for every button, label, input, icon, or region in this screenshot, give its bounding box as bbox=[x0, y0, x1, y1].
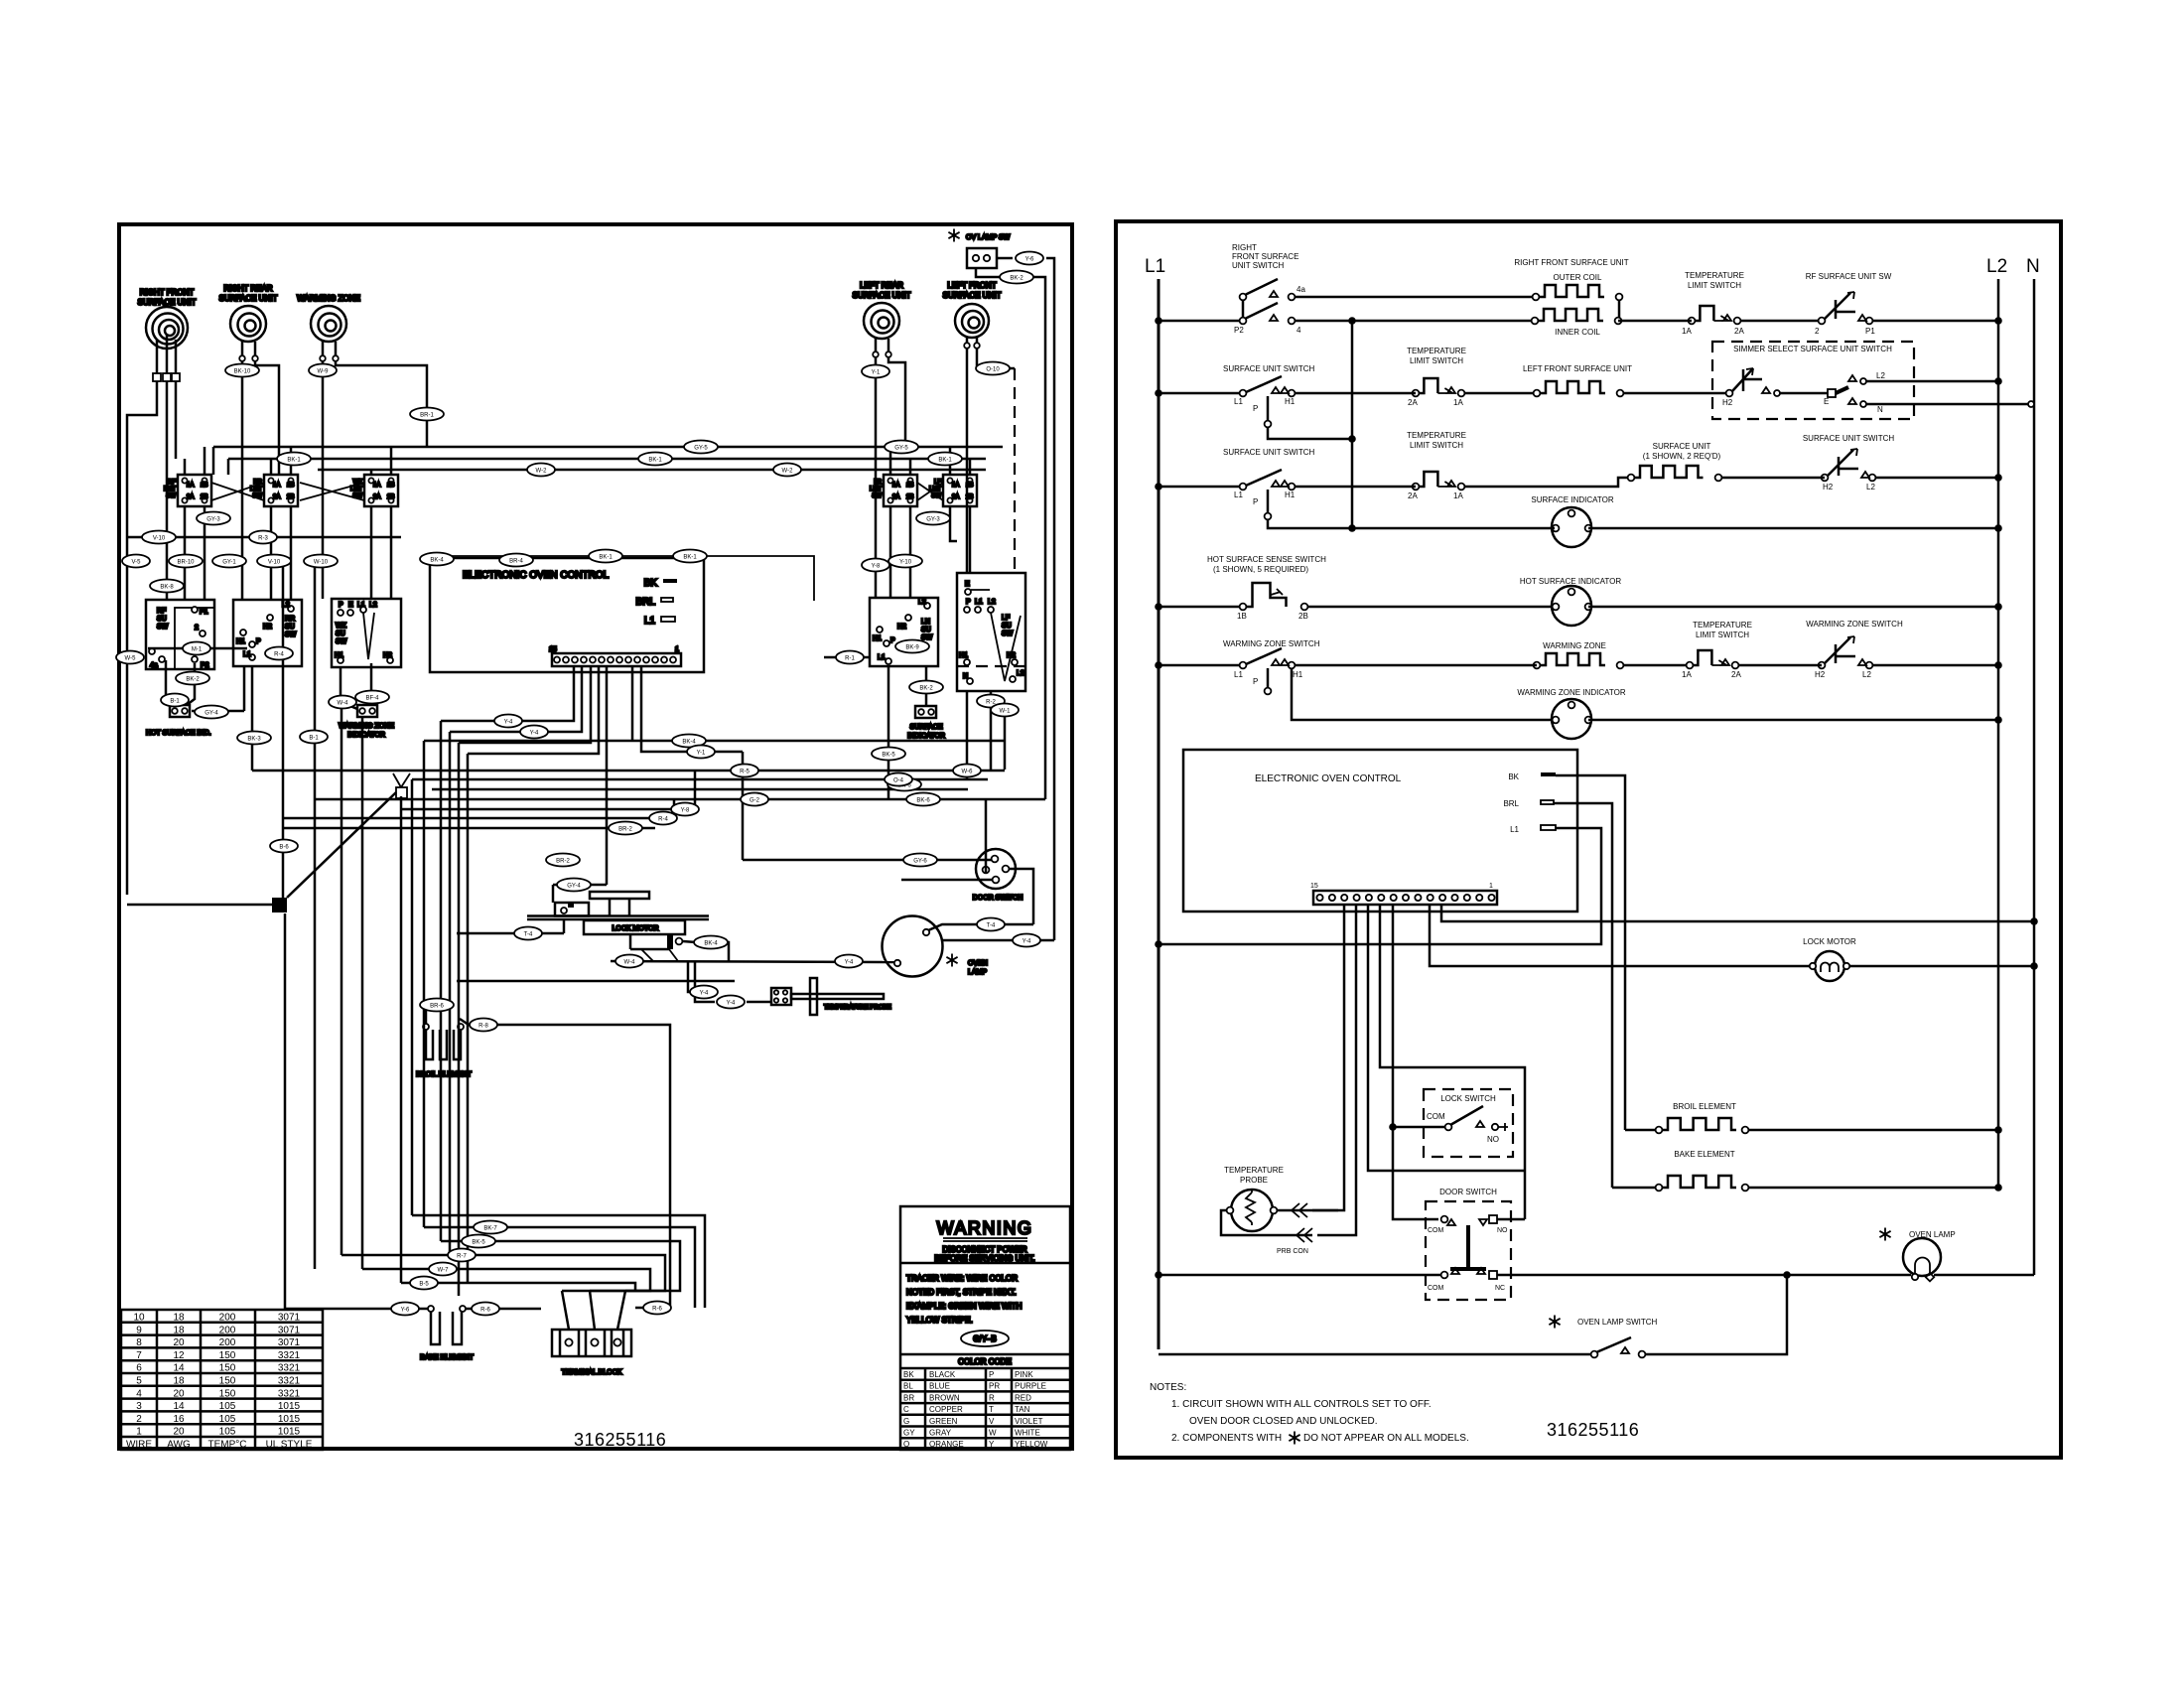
svg-text:SU: SU bbox=[921, 627, 931, 633]
svg-text:SURFACE UNIT SWITCH: SURFACE UNIT SWITCH bbox=[1223, 364, 1315, 373]
svg-text:OUTER COIL: OUTER COIL bbox=[1554, 273, 1602, 282]
wire label T-4 bbox=[514, 927, 542, 940]
wire label Y-6 bbox=[1016, 252, 1043, 265]
svg-text:L2: L2 bbox=[988, 599, 996, 606]
wire BRL lead bbox=[1554, 803, 1612, 1188]
svg-text:L2: L2 bbox=[918, 599, 926, 606]
wire lock motor to N bbox=[1849, 965, 2034, 968]
svg-text:Y-10: Y-10 bbox=[899, 560, 912, 566]
left page border frame bbox=[119, 224, 1072, 1449]
svg-text:RIGHT FRONT: RIGHT FRONT bbox=[140, 288, 195, 297]
wire label Y-4 bbox=[690, 986, 718, 999]
svg-text:2A: 2A bbox=[1408, 491, 1418, 500]
surface unit: RIGHT FRONT (spiral coil) bbox=[138, 288, 197, 349]
right page border frame bbox=[1116, 221, 2061, 1458]
wire lock bottom row bbox=[457, 980, 735, 983]
wire label GY-5 bbox=[885, 441, 918, 454]
svg-text:W: W bbox=[989, 1429, 997, 1438]
svg-text:L1: L1 bbox=[1234, 670, 1243, 679]
wire lamp feed row bbox=[611, 961, 894, 962]
svg-text:18: 18 bbox=[173, 1313, 185, 1324]
wire bus B bbox=[228, 458, 986, 461]
svg-text:SU: SU bbox=[157, 616, 167, 623]
svg-text:BF-4: BF-4 bbox=[365, 696, 379, 702]
switch RR SU SW bbox=[233, 600, 302, 666]
svg-text:SURFACE UNIT: SURFACE UNIT bbox=[943, 291, 1002, 300]
wire label V-10 bbox=[142, 531, 176, 544]
svg-text:Y-6: Y-6 bbox=[1025, 257, 1034, 263]
svg-text:Y-6: Y-6 bbox=[401, 1308, 410, 1314]
wire far left run bbox=[127, 536, 401, 539]
wire label Y-4 bbox=[494, 715, 522, 728]
svg-text:R-4: R-4 bbox=[274, 652, 284, 658]
svg-text:R: R bbox=[989, 1393, 995, 1402]
wire label V-5 bbox=[122, 555, 150, 568]
svg-text:G-2: G-2 bbox=[750, 798, 760, 804]
svg-text:BK-2: BK-2 bbox=[186, 677, 200, 683]
wire bus A bbox=[213, 446, 1003, 449]
svg-text:SIMMER SELECT SURFACE UNIT: SIMMER SELECT SURFACE UNIT SWITCH bbox=[1733, 345, 1892, 353]
svg-text:T: T bbox=[989, 1405, 994, 1414]
svg-text:W-5: W-5 bbox=[125, 656, 137, 662]
wire label GY-3 bbox=[197, 512, 230, 525]
lock motor assembly (left page) bbox=[527, 892, 709, 949]
svg-text:BROWN: BROWN bbox=[929, 1393, 960, 1402]
svg-text:10: 10 bbox=[133, 1313, 145, 1324]
wire label Y-8 bbox=[862, 559, 889, 572]
svg-text:NO: NO bbox=[1497, 1227, 1508, 1234]
wire label R-6 bbox=[643, 1302, 671, 1315]
svg-text:BK-1: BK-1 bbox=[599, 555, 613, 561]
wire label BK-2 bbox=[909, 681, 943, 694]
wire BK to broil bbox=[1625, 1129, 1655, 1132]
svg-text:COPPER: COPPER bbox=[929, 1405, 963, 1414]
svg-text:SW: SW bbox=[157, 624, 169, 631]
wire LR unit leads bbox=[875, 339, 878, 351]
svg-text:L2: L2 bbox=[1866, 483, 1875, 491]
svg-text:BROIL ELEMENT: BROIL ELEMENT bbox=[1673, 1102, 1736, 1111]
svg-text:GY-6: GY-6 bbox=[913, 859, 927, 865]
svg-text:BR-4: BR-4 bbox=[509, 559, 523, 565]
wire lamp row 947 bbox=[942, 939, 1054, 942]
svg-text:SURFACE INDICATOR: SURFACE INDICATOR bbox=[1531, 495, 1613, 504]
wire label W-6 bbox=[953, 765, 981, 777]
limit switch RR LMT SW bbox=[250, 475, 298, 506]
svg-text:NC: NC bbox=[1495, 1285, 1505, 1292]
svg-text:WARMING ZONE: WARMING ZONE bbox=[339, 723, 394, 730]
wire rung1 to RF sw bbox=[1618, 320, 1692, 323]
svg-text:200: 200 bbox=[219, 1313, 236, 1324]
svg-text:O: O bbox=[903, 1440, 909, 1449]
wire label BK-6 bbox=[906, 793, 940, 806]
svg-text:316255116: 316255116 bbox=[574, 1430, 666, 1450]
svg-text:L2: L2 bbox=[369, 602, 377, 609]
svg-text:2B: 2B bbox=[387, 494, 394, 500]
svg-text:LAMP: LAMP bbox=[968, 969, 987, 976]
wire rung3 segs bbox=[1296, 486, 1416, 489]
svg-text:P: P bbox=[890, 637, 895, 644]
svg-text:20: 20 bbox=[173, 1427, 185, 1438]
svg-text:EXAMPLE: GREEN WIRE WITH: EXAMPLE: GREEN WIRE WITH bbox=[906, 1302, 1023, 1311]
svg-text:3071: 3071 bbox=[278, 1337, 301, 1348]
svg-text:TRACER WIRE: WIRE COLOR: TRACER WIRE: WIRE COLOR bbox=[906, 1274, 1018, 1283]
wire rung6 to L2 bbox=[1588, 719, 1998, 722]
svg-text:ELECTRONIC OVEN CONTROL: ELECTRONIC OVEN CONTROL bbox=[463, 570, 610, 581]
svg-text:N: N bbox=[963, 673, 968, 680]
svg-text:SW: SW bbox=[921, 634, 933, 641]
svg-text:SURFACE UNIT: SURFACE UNIT bbox=[1653, 442, 1711, 451]
svg-text:Y: Y bbox=[989, 1440, 995, 1449]
svg-text:16: 16 bbox=[173, 1414, 185, 1425]
svg-text:FRONT SURFACE: FRONT SURFACE bbox=[1232, 252, 1298, 261]
svg-text:P2: P2 bbox=[201, 662, 209, 669]
wire switch box drops bbox=[165, 660, 168, 705]
svg-text:TEMPERATURE: TEMPERATURE bbox=[1407, 347, 1466, 355]
svg-text:GY-3: GY-3 bbox=[206, 517, 220, 523]
svg-text:R-3: R-3 bbox=[258, 536, 268, 542]
svg-text:DO NOT APPEAR ON ALL MODE: DO NOT APPEAR ON ALL MODELS. bbox=[1303, 1433, 1469, 1444]
surface unit: WARMING ZONE bbox=[297, 294, 360, 342]
svg-text:H2: H2 bbox=[1815, 670, 1826, 679]
svg-text:PROBE: PROBE bbox=[1240, 1176, 1268, 1185]
svg-text:BK-7: BK-7 bbox=[483, 1226, 497, 1232]
wire label R-6 bbox=[472, 1303, 499, 1316]
svg-text:H2: H2 bbox=[1722, 398, 1733, 407]
wire label R-1 bbox=[836, 651, 864, 664]
wire P drop row5 bbox=[1265, 688, 1272, 695]
svg-text:1B: 1B bbox=[387, 483, 394, 489]
svg-text:LEFT FRONT SURFACE UNIT: LEFT FRONT SURFACE UNIT bbox=[1523, 364, 1632, 373]
svg-text:INDICATOR: INDICATOR bbox=[347, 732, 385, 739]
wire label R-3 bbox=[249, 531, 277, 544]
svg-text:BK-1: BK-1 bbox=[648, 458, 662, 464]
svg-text:ELECTRONIC OVEN CONTROL: ELECTRONIC OVEN CONTROL bbox=[1255, 773, 1402, 784]
svg-text:3071: 3071 bbox=[278, 1313, 301, 1324]
svg-text:PINK: PINK bbox=[1015, 1370, 1033, 1379]
svg-text:8: 8 bbox=[136, 1337, 142, 1348]
wire label BK-5 bbox=[872, 748, 905, 761]
svg-text:RF SURFACE UNIT SW: RF SURFACE UNIT SW bbox=[1806, 272, 1892, 281]
svg-text:BR-6: BR-6 bbox=[430, 1004, 444, 1010]
bake element (left page) bbox=[420, 1306, 474, 1361]
switch DOOR SWITCH bbox=[1426, 1201, 1511, 1300]
wire label W-9 bbox=[309, 364, 337, 377]
svg-text:2A: 2A bbox=[1734, 327, 1744, 336]
svg-text:H1: H1 bbox=[1293, 670, 1303, 679]
svg-text:GREEN: GREEN bbox=[929, 1417, 958, 1426]
wire WZ unit leads bbox=[322, 342, 325, 355]
svg-text:1A: 1A bbox=[187, 483, 194, 489]
wire label BR-6 bbox=[420, 999, 454, 1012]
svg-text:TAN: TAN bbox=[1015, 1405, 1030, 1414]
svg-text:2: 2 bbox=[195, 625, 199, 631]
wire label T-4 bbox=[977, 918, 1005, 931]
wire rung4 bbox=[1307, 606, 1555, 609]
switch WZ SU SW bbox=[332, 599, 401, 667]
svg-text:COM: COM bbox=[1428, 1227, 1444, 1234]
svg-text:BK-3: BK-3 bbox=[247, 737, 261, 743]
wire rung5 to L2 bbox=[1738, 664, 1822, 667]
wire pin10 to lock motor bbox=[1430, 905, 1813, 966]
svg-text:P2: P2 bbox=[1234, 326, 1244, 335]
svg-text:P: P bbox=[989, 1370, 994, 1379]
svg-text:1015: 1015 bbox=[278, 1414, 301, 1425]
svg-text:2: 2 bbox=[1815, 327, 1820, 336]
svg-text:P: P bbox=[1253, 404, 1258, 413]
wire lock motor BK branch bbox=[683, 941, 696, 942]
svg-text:2A: 2A bbox=[187, 494, 194, 500]
svg-text:2A: 2A bbox=[373, 494, 380, 500]
svg-text:W-1: W-1 bbox=[1000, 709, 1012, 715]
svg-text:SURFACE UNIT: SURFACE UNIT bbox=[219, 294, 278, 303]
svg-text:TEMP°C: TEMP°C bbox=[208, 1440, 247, 1451]
node junction rung1 bbox=[1348, 317, 1356, 325]
svg-text:1B: 1B bbox=[906, 483, 913, 489]
svg-text:14: 14 bbox=[173, 1401, 185, 1412]
svg-text:4: 4 bbox=[1297, 326, 1301, 335]
wire door to lamp riser bbox=[1009, 869, 1033, 924]
svg-text:20: 20 bbox=[173, 1337, 185, 1348]
surface unit: RIGHT REAR bbox=[219, 284, 278, 342]
surface indicator (left page) bbox=[907, 706, 945, 740]
svg-text:OVEN LAMP SWITCH: OVEN LAMP SWITCH bbox=[1577, 1318, 1658, 1327]
wire label W-1 bbox=[991, 704, 1019, 717]
svg-text:2. COMPONENTS WITH: 2. COMPONENTS WITH bbox=[1171, 1433, 1282, 1444]
svg-text:GY-4: GY-4 bbox=[567, 884, 581, 890]
svg-text:BK-4: BK-4 bbox=[430, 558, 444, 564]
svg-text:OV LAMP SW: OV LAMP SW bbox=[966, 234, 1011, 241]
wire P drop row3 bbox=[1265, 513, 1272, 520]
svg-text:WARMING ZONE SWITCH: WARMING ZONE SWITCH bbox=[1223, 639, 1320, 648]
wire bake to L2 bbox=[1749, 1187, 1998, 1190]
svg-text:V-10: V-10 bbox=[153, 536, 166, 542]
svg-text:2B: 2B bbox=[201, 494, 207, 500]
OV LAMP SW box bbox=[948, 229, 1010, 269]
svg-text:DOOR SWITCH: DOOR SWITCH bbox=[973, 895, 1024, 902]
svg-text:YELLOW STRIPE.: YELLOW STRIPE. bbox=[906, 1316, 973, 1325]
wire label BK-4 bbox=[420, 553, 454, 566]
svg-text:3321: 3321 bbox=[278, 1363, 301, 1374]
svg-text:1A: 1A bbox=[1453, 398, 1463, 407]
svg-text:9: 9 bbox=[136, 1325, 142, 1335]
svg-text:1A: 1A bbox=[373, 483, 380, 489]
svg-text:3: 3 bbox=[136, 1401, 142, 1412]
svg-text:LIMIT SWITCH: LIMIT SWITCH bbox=[1410, 441, 1463, 450]
svg-text:H1: H1 bbox=[236, 638, 245, 645]
svg-text:L2: L2 bbox=[1862, 670, 1871, 679]
svg-text:LF: LF bbox=[1002, 615, 1010, 622]
wire rung2 to simmer box bbox=[1623, 392, 1726, 395]
svg-text:1A: 1A bbox=[1453, 491, 1463, 500]
svg-text:W-4: W-4 bbox=[338, 701, 349, 707]
wire LF unit leads bbox=[966, 338, 969, 343]
svg-text:LEFT REAR: LEFT REAR bbox=[860, 281, 903, 290]
wire label BK-8 bbox=[150, 580, 184, 593]
wire label BK-1 bbox=[638, 453, 672, 466]
svg-text:E: E bbox=[965, 581, 970, 588]
svg-text:TEMPERATURE: TEMPERATURE bbox=[1224, 1166, 1284, 1175]
box ELECTRONIC OVEN CONTROL (schematic) bbox=[1183, 750, 1577, 912]
svg-text:1A: 1A bbox=[273, 483, 280, 489]
wire broil leads bbox=[426, 1001, 431, 1024]
svg-text:BRL: BRL bbox=[1503, 799, 1519, 808]
svg-text:TEMPERATURE: TEMPERATURE bbox=[1685, 271, 1744, 280]
svg-text:H2: H2 bbox=[263, 624, 272, 631]
svg-text:BK: BK bbox=[1508, 772, 1519, 781]
wire label BK-1 bbox=[673, 550, 707, 563]
svg-text:SU: SU bbox=[285, 624, 295, 631]
svg-text:1A: 1A bbox=[1682, 670, 1692, 679]
svg-text:OVEN: OVEN bbox=[968, 960, 988, 967]
wire label BR-1 bbox=[410, 408, 444, 421]
svg-text:YELLOW: YELLOW bbox=[1015, 1440, 1048, 1449]
svg-text:BR-10: BR-10 bbox=[177, 560, 195, 566]
svg-text:GY-5: GY-5 bbox=[894, 446, 908, 452]
svg-text:3321: 3321 bbox=[278, 1350, 301, 1361]
svg-text:L1: L1 bbox=[1234, 397, 1243, 406]
svg-text:H1: H1 bbox=[1285, 397, 1296, 406]
wire label W-4 bbox=[329, 696, 356, 709]
wire BRL to bake bbox=[1612, 1187, 1655, 1190]
wire label BK-1 bbox=[589, 550, 622, 563]
svg-text:COM: COM bbox=[1428, 1285, 1444, 1292]
wire bottom fan-out rows bbox=[412, 1215, 705, 1308]
wire label W-7 bbox=[429, 1263, 457, 1276]
svg-text:SURFACE UNIT SWITCH: SURFACE UNIT SWITCH bbox=[1223, 448, 1315, 457]
wire label BK-1 bbox=[277, 453, 311, 466]
svg-text:Y-4: Y-4 bbox=[1023, 939, 1031, 945]
svg-text:316255116: 316255116 bbox=[1547, 1420, 1639, 1440]
svg-text:Y-1: Y-1 bbox=[697, 751, 706, 757]
svg-text:HOT SURFACE IND.: HOT SURFACE IND. bbox=[146, 730, 211, 737]
svg-text:SURFACE UNIT: SURFACE UNIT bbox=[853, 291, 911, 300]
oven lamp (left page) bbox=[883, 916, 988, 977]
wire label BK-6 bbox=[887, 778, 921, 791]
svg-text:H1: H1 bbox=[335, 652, 343, 659]
svg-text:DOOR SWITCH: DOOR SWITCH bbox=[1439, 1188, 1497, 1196]
svg-text:W-2: W-2 bbox=[536, 469, 548, 475]
svg-text:WARMING ZONE: WARMING ZONE bbox=[1543, 641, 1606, 650]
svg-text:N: N bbox=[1877, 405, 1883, 414]
wire lock switch stub bbox=[1498, 1123, 1508, 1131]
wire P drop row2 bbox=[1265, 421, 1272, 428]
svg-text:SURFACE: SURFACE bbox=[909, 724, 942, 731]
svg-text:RF: RF bbox=[157, 608, 166, 615]
svg-text:H1: H1 bbox=[959, 652, 968, 659]
svg-text:AWG: AWG bbox=[167, 1440, 191, 1451]
svg-text:L1: L1 bbox=[1145, 256, 1165, 277]
svg-text:BL: BL bbox=[903, 1382, 913, 1391]
wire label GY-5 bbox=[684, 441, 718, 454]
svg-text:SW: SW bbox=[336, 638, 347, 645]
svg-text:L1: L1 bbox=[243, 651, 251, 658]
svg-text:1015: 1015 bbox=[278, 1427, 301, 1438]
limit switch WZ LMT SW bbox=[350, 475, 398, 506]
svg-text:WIRE: WIRE bbox=[126, 1440, 152, 1451]
svg-text:P: P bbox=[256, 638, 261, 645]
svg-text:15: 15 bbox=[549, 646, 557, 653]
svg-text:TEMPERATURE: TEMPERATURE bbox=[1693, 621, 1752, 630]
svg-text:B-1: B-1 bbox=[309, 736, 319, 742]
svg-text:VIOLET: VIOLET bbox=[1015, 1417, 1043, 1426]
svg-text:BK-6: BK-6 bbox=[916, 798, 930, 804]
svg-text:3071: 3071 bbox=[278, 1325, 301, 1335]
svg-text:SW: SW bbox=[1002, 631, 1014, 637]
wire label B-1 bbox=[300, 731, 328, 744]
wire label BK-9 bbox=[895, 640, 929, 653]
wire pin4 to probe return bbox=[1317, 905, 1356, 1235]
svg-text:UL STYLE: UL STYLE bbox=[266, 1440, 313, 1451]
temperature probe (left page) bbox=[771, 978, 891, 1015]
wire label BK-1 bbox=[928, 453, 962, 466]
wire probe left lead bbox=[1221, 1210, 1312, 1235]
wire label W-2 bbox=[527, 464, 555, 477]
wire label BK-5 bbox=[462, 1235, 495, 1248]
svg-text:1. CIRCUIT SHOWN WITH ALL: 1. CIRCUIT SHOWN WITH ALL CONTROLS SET T… bbox=[1171, 1399, 1432, 1410]
hot surface indicator (left page) bbox=[146, 705, 211, 737]
svg-text:M-1: M-1 bbox=[192, 647, 203, 653]
wire label R-7 bbox=[448, 1249, 476, 1262]
wire door switch feed bbox=[641, 666, 743, 752]
svg-text:RED: RED bbox=[1015, 1393, 1031, 1402]
svg-text:P: P bbox=[1253, 497, 1258, 506]
svg-text:P: P bbox=[339, 602, 343, 609]
wire label GY-4 bbox=[195, 706, 228, 719]
wire bake leads bbox=[285, 1308, 428, 1311]
svg-text:TEMPERATURE PROBE: TEMPERATURE PROBE bbox=[824, 1005, 891, 1011]
svg-text:INDICATOR: INDICATOR bbox=[907, 733, 945, 740]
svg-text:BK-1: BK-1 bbox=[683, 555, 697, 561]
svg-text:T-4: T-4 bbox=[987, 923, 996, 929]
wire label BK-10 bbox=[225, 364, 259, 377]
wire oven lamp switch leads bbox=[997, 257, 1013, 260]
svg-text:BK-2: BK-2 bbox=[1010, 276, 1024, 282]
svg-text:200: 200 bbox=[219, 1325, 236, 1335]
wire label Y-1 bbox=[687, 746, 715, 759]
wire bus C bbox=[318, 469, 986, 472]
svg-text:B-1: B-1 bbox=[170, 699, 180, 705]
svg-text:WARNING: WARNING bbox=[937, 1218, 1033, 1238]
svg-text:7: 7 bbox=[136, 1350, 142, 1361]
svg-text:V-10: V-10 bbox=[268, 560, 281, 566]
svg-text:BK-2: BK-2 bbox=[919, 686, 933, 692]
svg-text:18: 18 bbox=[173, 1325, 185, 1335]
wire rung1 upper bbox=[1296, 296, 1536, 299]
svg-text:C: C bbox=[903, 1405, 909, 1414]
svg-text:BK-1: BK-1 bbox=[287, 458, 301, 464]
svg-text:1: 1 bbox=[675, 646, 679, 653]
svg-text:(1 SHOWN, 2 REQ'D): (1 SHOWN, 2 REQ'D) bbox=[1643, 452, 1721, 461]
svg-text:WARMING ZONE SWITCH: WARMING ZONE SWITCH bbox=[1806, 620, 1903, 629]
wire pin3 to probe bbox=[1312, 905, 1344, 1210]
svg-text:BLUE: BLUE bbox=[929, 1382, 950, 1391]
svg-text:GRAY: GRAY bbox=[929, 1429, 952, 1438]
wire simmer to N bbox=[1866, 403, 2034, 406]
svg-text:E: E bbox=[348, 602, 353, 609]
wire door switch NO to riser bbox=[1497, 1218, 1525, 1221]
wire label BK-3 bbox=[237, 732, 271, 745]
svg-text:SU: SU bbox=[336, 631, 345, 637]
svg-text:12: 12 bbox=[173, 1350, 185, 1361]
svg-text:LMT: LMT bbox=[350, 487, 362, 492]
svg-text:R-5: R-5 bbox=[740, 770, 750, 775]
svg-text:OVEN DOOR CLOSED AND UNLOC: OVEN DOOR CLOSED AND UNLOCKED. bbox=[1189, 1416, 1377, 1427]
wire label W-10 bbox=[304, 555, 338, 568]
wire label G-2 bbox=[741, 793, 768, 806]
wire broil to L2 bbox=[1749, 1129, 1998, 1132]
svg-text:R-6: R-6 bbox=[480, 1308, 490, 1314]
svg-text:H2: H2 bbox=[1823, 483, 1834, 491]
